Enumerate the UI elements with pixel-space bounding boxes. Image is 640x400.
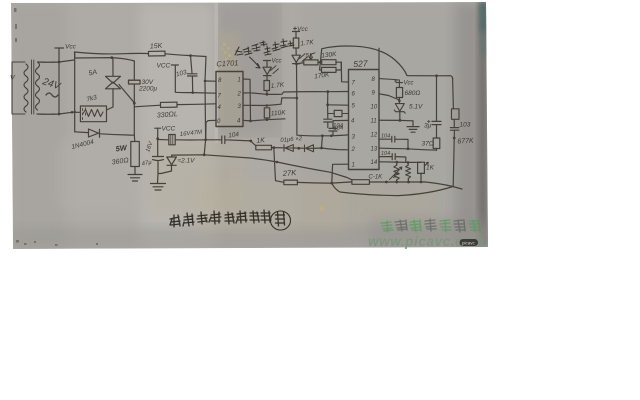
schematic ink: [10, 26, 485, 249]
watermark line 2 www.picavc.com: [368, 234, 485, 249]
svg-text:330ΩL: 330ΩL: [157, 111, 178, 119]
svg-text:37Ω: 37Ω: [422, 141, 434, 148]
resistor 330SL: [134, 102, 216, 119]
power VCC symbol (left): [55, 44, 77, 62]
wire: row D tops of Rt / R / 1K: [379, 161, 421, 164]
capacitor 104 (under U1): [206, 131, 251, 144]
zener diode 5.1V: [394, 101, 423, 121]
wire: SCR section box left edge: [74, 52, 76, 132]
capacitor 16V47M (film): [156, 130, 207, 145]
svg-text:Vcc: Vcc: [65, 44, 77, 51]
op-amp U1 C1701: [216, 58, 243, 126]
annotation scribble 2: [264, 39, 294, 55]
diode D1 1N4004 on box bottom edge: [71, 129, 135, 151]
wire: right edge column: [453, 78, 456, 187]
resistor 680 ohm: [396, 88, 420, 103]
svg-text:104: 104: [333, 124, 344, 130]
wire: U1 pin4 row: [243, 118, 285, 122]
wire: row B from U2 right to 370 bottom: [379, 147, 437, 150]
svg-text:C-1K: C-1K: [369, 175, 384, 181]
resistor 15K: [148, 43, 165, 56]
watermark badge: [460, 239, 479, 246]
svg-text:VCC: VCC: [157, 63, 171, 70]
resistor 1.7K (upper): [293, 38, 314, 55]
wire: long sloping wire zener row: [172, 153, 352, 179]
wire: U2 pin1 row to 27K node: [332, 164, 349, 183]
resistor R (U2 pin5-pin4 box): [328, 110, 349, 116]
svg-text:5W: 5W: [115, 143, 128, 154]
svg-text:527: 527: [353, 58, 368, 69]
svg-text:≈2.1V: ≈2.1V: [178, 158, 196, 165]
capacitor 3u electrolytic column: [424, 76, 441, 138]
LED D5: [292, 54, 308, 64]
power VCC symbol 5 (LED D5 column top): [293, 26, 309, 38]
resistor 5W 360 vertical: [111, 135, 139, 174]
svg-text:1.7K: 1.7K: [300, 39, 315, 47]
svg-text:110K: 110K: [271, 109, 287, 117]
resistor 1K (middle row): [249, 137, 275, 150]
svg-text:103: 103: [460, 122, 471, 129]
power +VCC symbol (680 ohm): [379, 79, 414, 88]
wire: U1 pin0 step down: [206, 120, 216, 140]
svg-text:677K: 677K: [457, 138, 474, 146]
wire: 15K to corner node: [165, 54, 206, 57]
thyristor Q1 5A: [88, 58, 134, 110]
svg-text:Vcc: Vcc: [297, 26, 309, 33]
svg-text:14: 14: [371, 160, 378, 166]
svg-text:15K: 15K: [150, 43, 163, 51]
resistor C-1K: [352, 175, 388, 185]
svg-text:1: 1: [352, 163, 355, 169]
capacitor C 30V 2200u: [129, 79, 158, 93]
wire: transformer top to node: [38, 60, 74, 63]
svg-text:2: 2: [351, 147, 356, 153]
svg-text:104: 104: [381, 134, 390, 140]
zener diode 2.1V: [158, 155, 195, 173]
svg-text:1K: 1K: [426, 165, 435, 172]
wire: drop to U2 pin5 and cap node: [326, 92, 348, 119]
resistor 27K with vertical from 1K node: [274, 148, 352, 185]
annotation scribble 1 with arrow: [235, 41, 267, 68]
svg-text:Vcc: Vcc: [404, 81, 414, 87]
svg-text:680Ω: 680Ω: [405, 90, 421, 97]
wire: U2 pin11 row + ground G2: [379, 119, 419, 132]
wire: bottom row right section: [386, 181, 452, 187]
resistor 1.7K (LED D4): [264, 81, 285, 96]
svg-text:13: 13: [371, 147, 378, 153]
resistor R zigzag 2: [406, 162, 411, 182]
wire: bottom bus: [332, 183, 462, 196]
ground G1: [128, 175, 142, 182]
svg-text:5K: 5K: [306, 53, 315, 60]
svg-text:5.1V: 5.1V: [409, 104, 423, 111]
watermark line 1 (green Chinese): [381, 219, 480, 232]
wire: drop from y135 row to diode row: [321, 136, 324, 148]
svg-text:1: 1: [238, 78, 241, 84]
svg-text:2200μ: 2200μ: [138, 86, 157, 93]
svg-text:27K: 27K: [282, 168, 298, 178]
resistor 370: [422, 138, 440, 150]
wire: bus drop to U2 top right corner: [378, 48, 380, 69]
svg-text:2: 2: [237, 92, 242, 98]
wire: 130K node down into U2 pin7: [341, 62, 348, 82]
wire: U1 pin3 row to LED column: [243, 97, 298, 107]
capacitor 104 row C (right of U2): [379, 151, 406, 162]
wire: U1 pin1 down to pin4 node: [243, 79, 267, 121]
capacitor 104 (at U2 pin4): [329, 120, 349, 135]
resistor 110K: [264, 108, 286, 120]
U1 pin numbers: [217, 78, 242, 126]
wire: LED D5 column down to y135 row: [295, 63, 348, 138]
svg-text:12: 12: [371, 133, 378, 139]
svg-text:picavc: picavc: [462, 241, 476, 246]
svg-text:C1701: C1701: [216, 58, 239, 68]
thermistor Rt (zigzag with arrow): [390, 162, 402, 182]
wire: U2 pin9 to 680/zener node: [379, 94, 399, 100]
svg-text:10: 10: [371, 105, 378, 111]
U2 pin numbers: [351, 77, 378, 169]
capacitor 103 (left): [175, 56, 197, 93]
potentiometer 1K (right): [418, 162, 435, 182]
svg-text:1.7K: 1.7K: [270, 82, 285, 90]
title: Chinese handwritten caption: [170, 210, 291, 230]
op-amp U2 527: [349, 58, 380, 169]
capacitor 47u electrolytic + ground: [141, 139, 163, 183]
wire: pin2 row step to U2 pin6: [267, 90, 349, 94]
power VCC symbol 2 with wire to IC1 pin7: [157, 63, 216, 94]
power VCC symbol 3 (16V47M row): [155, 126, 176, 139]
svg-text:104: 104: [381, 151, 390, 157]
capacitor 104 row A (right of U2): [379, 134, 408, 149]
wire: SCR section box top edge: [75, 56, 135, 61]
transformer T1: [10, 60, 63, 114]
wire: vertical drop x=206 to IC1 pin8 and down: [204, 57, 216, 155]
resistor 130K: [321, 51, 341, 65]
wire: top bus arc over U2 to right edge: [320, 46, 452, 79]
svg-text:11: 11: [371, 119, 377, 125]
svg-text:Vcc: Vcc: [272, 59, 282, 65]
resistor box (right column): [452, 109, 460, 120]
ground G3: [151, 184, 166, 191]
potentiometer 5K: [297, 53, 322, 65]
LED D4: [263, 66, 279, 81]
wire: long top wire to 15K: [75, 52, 149, 58]
photo of hand-drawn schematic: paper background: [11, 2, 488, 249]
wire: left vertical transformer node: [58, 62, 60, 114]
svg-text:3μ: 3μ: [424, 123, 432, 130]
capacitor 104 (U2 pin5 node): [324, 119, 344, 129]
svg-text:VCC: VCC: [162, 126, 176, 133]
power VCC symbol 4 (LED D4 column): [264, 59, 282, 67]
heater element R (dashed box with zigzag): [80, 94, 106, 122]
diode D2: [274, 136, 304, 151]
wire: SCR box right vertical with junctions: [133, 61, 136, 135]
wire: transformer bottom: [37, 111, 80, 115]
diode D3: [305, 145, 349, 152]
capacitor 103 (right column): [450, 122, 470, 131]
resistor 170K (parallel): [314, 62, 341, 80]
svg-text:1K: 1K: [256, 137, 266, 145]
